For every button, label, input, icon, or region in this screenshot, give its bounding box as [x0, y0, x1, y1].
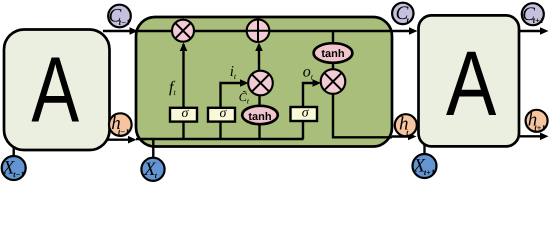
arrowhead into mult3	[313, 79, 322, 87]
arrowhead h entry	[128, 136, 137, 144]
svg-text:t+1: t+1	[533, 16, 544, 25]
node C(t)	[392, 3, 413, 25]
arrowhead into plus	[255, 43, 263, 52]
node h(t+1)	[526, 109, 548, 132]
wire h-line inside cell (input)	[136, 138, 304, 140]
svg-text:σ: σ	[220, 106, 228, 121]
sigma box 3 (output gate)	[291, 105, 318, 121]
wire C-line from previous cell through LSTM (top, y=31)	[103, 30, 392, 32]
wire mult2 to plus vertical	[258, 45, 260, 72]
wire h out to next cell	[392, 135, 410, 137]
svg-text:t−1: t−1	[13, 170, 24, 179]
svg-text:t+1: t+1	[424, 168, 435, 177]
node h(t-1)	[109, 113, 132, 136]
multiply gate mult1 (forget)	[172, 20, 194, 42]
node X(t-1)	[2, 156, 26, 180]
wire h(t+1) out of right box	[519, 135, 542, 137]
node C(t+1)	[522, 3, 544, 25]
svg-text:σ: σ	[302, 105, 310, 120]
wire h output from mult3 down and right	[333, 94, 392, 138]
wire C-line inside cell	[136, 30, 392, 32]
multiply gate mult3 (output)	[321, 69, 346, 94]
svg-text:t+1: t+1	[534, 124, 545, 133]
right RNN cell box A (t+1)	[419, 15, 520, 146]
svg-text:A: A	[31, 37, 79, 141]
LSTM cell body (green rounded box)	[136, 17, 392, 147]
arrowhead into mult1	[180, 43, 188, 52]
node X(t)	[141, 158, 164, 181]
svg-text:t−1: t−1	[118, 127, 129, 136]
wire X(t) junction stem	[152, 139, 154, 159]
wire candidate tanh vertical	[258, 90, 260, 139]
wire C(t+1) out of right box	[519, 30, 542, 32]
svg-text:A: A	[446, 33, 497, 135]
wire forget gate vertical (sigma1 to mult1)	[182, 44, 184, 139]
arrowhead into mult2	[240, 79, 249, 87]
svg-text:σ: σ	[182, 106, 190, 121]
node X(t+1)	[413, 154, 437, 178]
wire C out to next cell	[392, 30, 411, 32]
wire C-line branch down through tanh3 to mult3	[332, 31, 334, 70]
sigma box 2 (input gate)	[208, 106, 235, 122]
svg-text:t−1: t−1	[119, 18, 130, 27]
wire output gate path (sigma3 up and right to mult3)	[303, 83, 314, 139]
node C(t-1)	[108, 5, 131, 28]
wire X(t-1) stem	[12, 148, 14, 158]
svg-text:tanh: tanh	[321, 48, 345, 60]
tanh ellipse on C branch (output squash)	[314, 43, 353, 63]
wire input gate path (sigma2 up and right to mult2)	[221, 83, 243, 139]
wire h-line entry from previous cell (bottom left)	[104, 138, 132, 140]
svg-text:tanh: tanh	[248, 111, 272, 123]
multiply gate mult2 (input)	[248, 71, 273, 96]
arrowhead C entry	[130, 27, 139, 35]
left RNN cell box A (t-1)	[4, 30, 110, 151]
node h(t)	[395, 114, 417, 137]
add gate plus	[247, 19, 270, 42]
tanh ellipse candidate (bottom middle)	[242, 106, 278, 124]
sigma box 1 (forget gate)	[170, 106, 197, 122]
wire X(t+1) stem	[423, 145, 425, 156]
